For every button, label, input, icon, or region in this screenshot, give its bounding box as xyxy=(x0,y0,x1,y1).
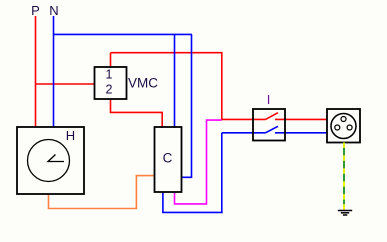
wire red branch P to VMC pin left xyxy=(36,83,95,85)
wire neutral drop to C top (blue) xyxy=(174,34,176,128)
wire neutral drop to C right (blue) xyxy=(181,34,191,177)
wire blue right vertical down xyxy=(221,133,223,213)
wire earth yellow end segment xyxy=(343,204,345,209)
switch blade red pole xyxy=(266,113,279,120)
socket pin left xyxy=(335,125,340,130)
wire blue bottom horizontal xyxy=(162,211,223,213)
wire blue switch to socket xyxy=(275,132,327,134)
box C contactor xyxy=(155,127,182,192)
wire earth dashed green base xyxy=(343,142,345,209)
svg-text:H: H xyxy=(66,128,75,143)
svg-text:I: I xyxy=(267,92,271,107)
svg-text:P: P xyxy=(31,3,40,18)
wire VMC pin1 up (red) xyxy=(110,53,112,68)
socket pin top xyxy=(341,117,346,122)
svg-text:1: 1 xyxy=(106,68,113,82)
wire earth dashed yellow overlay xyxy=(343,143,345,210)
svg-text:C: C xyxy=(163,151,173,166)
socket face circle xyxy=(331,114,356,139)
box switch I xyxy=(253,109,285,141)
ground symbol xyxy=(338,211,352,216)
clock face circle of H xyxy=(28,140,70,182)
box socket outlet xyxy=(327,109,360,143)
box VMC relay (pins 1,2) xyxy=(95,67,127,99)
wire neutral top horizontal (blue) xyxy=(54,33,192,35)
wire red feed to switch I xyxy=(222,118,266,120)
box H timer xyxy=(17,127,84,194)
wire orange H bottom to C left xyxy=(49,176,155,209)
wire red right vertical down xyxy=(221,53,223,120)
wire blue C bottom drop xyxy=(162,192,164,212)
wire red top horizontal to right xyxy=(111,52,223,54)
svg-text:2: 2 xyxy=(106,83,113,97)
svg-text:N: N xyxy=(49,3,58,18)
clock hands of H xyxy=(48,155,64,162)
wire red switch to socket xyxy=(275,118,327,120)
wire VMC pin2 down to C top (red) xyxy=(111,99,163,128)
svg-text:VMC: VMC xyxy=(128,76,158,91)
wire magenta C bottom to red corner xyxy=(175,120,222,204)
wire P phase vertical (red) xyxy=(35,16,37,127)
switch blade blue pole xyxy=(266,126,279,133)
socket pin right xyxy=(347,125,352,130)
wire blue feed to switch I xyxy=(222,132,266,134)
wire N neutral vertical (blue) xyxy=(53,16,55,127)
